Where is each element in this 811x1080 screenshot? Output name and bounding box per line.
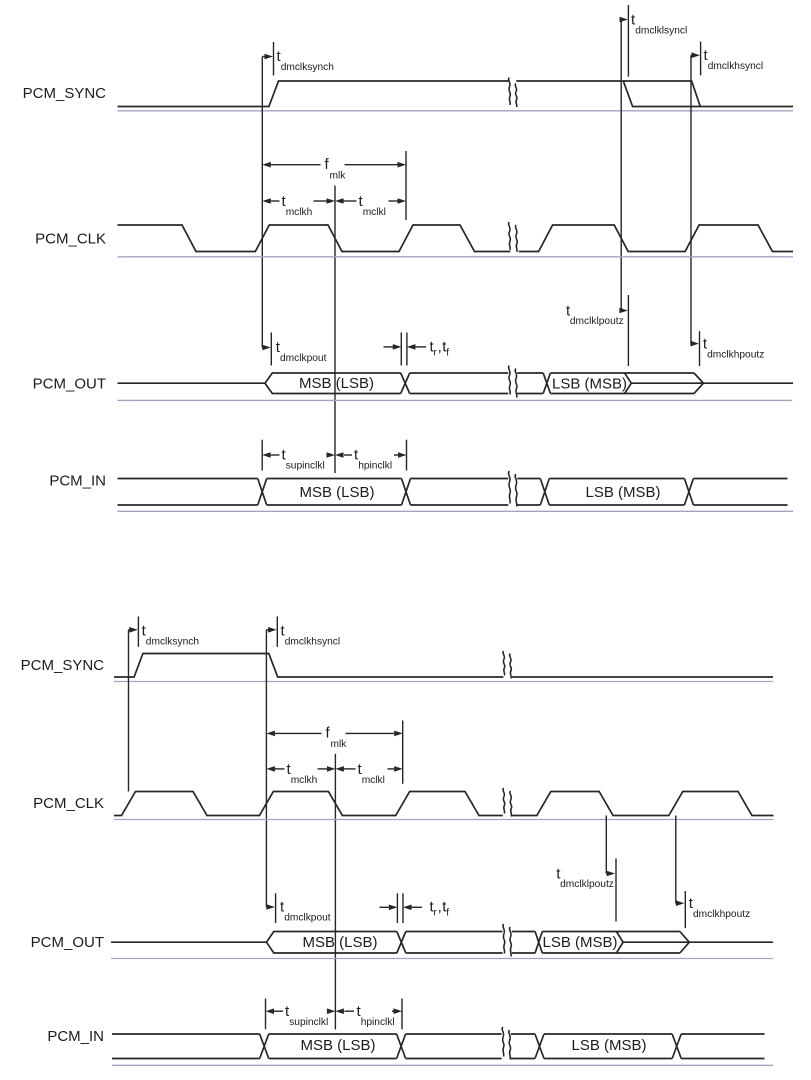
svg-text:LSB (MSB): LSB (MSB) bbox=[585, 484, 660, 501]
svg-text:PCM_CLK: PCM_CLK bbox=[35, 231, 106, 248]
svg-text:LSB (MSB): LSB (MSB) bbox=[552, 376, 627, 393]
svg-text:dmclklpoutz: dmclklpoutz bbox=[570, 316, 624, 327]
svg-text:dmclkpout: dmclkpout bbox=[280, 353, 327, 364]
svg-text:dmclklpoutz: dmclklpoutz bbox=[560, 879, 614, 890]
svg-text:mclkh: mclkh bbox=[291, 775, 318, 786]
svg-text:dmclksynch: dmclksynch bbox=[146, 637, 199, 648]
svg-text:MSB (LSB): MSB (LSB) bbox=[299, 484, 374, 501]
svg-text:mclkl: mclkl bbox=[363, 207, 386, 218]
svg-text:hpinclkl: hpinclkl bbox=[358, 461, 392, 472]
svg-text:PCM_OUT: PCM_OUT bbox=[33, 376, 106, 393]
svg-text:MSB (LSB): MSB (LSB) bbox=[302, 934, 377, 951]
svg-text:MSB (LSB): MSB (LSB) bbox=[300, 1037, 375, 1054]
svg-text:LSB (MSB): LSB (MSB) bbox=[542, 934, 617, 951]
svg-text:supinclkl: supinclkl bbox=[286, 461, 325, 472]
svg-text:mlk: mlk bbox=[330, 171, 347, 182]
svg-text:dmclklsyncl: dmclklsyncl bbox=[635, 26, 687, 37]
svg-text:dmclkhsyncl: dmclkhsyncl bbox=[285, 637, 340, 648]
svg-text:PCM_IN: PCM_IN bbox=[49, 473, 106, 490]
svg-text:mclkl: mclkl bbox=[362, 775, 385, 786]
svg-text:,: , bbox=[438, 339, 442, 356]
svg-text:dmclkpout: dmclkpout bbox=[284, 913, 331, 924]
svg-text:LSB (MSB): LSB (MSB) bbox=[571, 1037, 646, 1054]
svg-text:mclkh: mclkh bbox=[286, 207, 313, 218]
svg-text:dmclkhpoutz: dmclkhpoutz bbox=[693, 909, 750, 920]
svg-text:PCM_IN: PCM_IN bbox=[47, 1028, 104, 1045]
svg-text:dmclkhsyncl: dmclkhsyncl bbox=[708, 61, 763, 72]
svg-text:PCM_CLK: PCM_CLK bbox=[33, 795, 104, 812]
svg-text:PCM_OUT: PCM_OUT bbox=[31, 934, 104, 951]
svg-text:dmclksynch: dmclksynch bbox=[281, 62, 334, 73]
svg-text:f: f bbox=[446, 907, 449, 918]
svg-text:hpinclkl: hpinclkl bbox=[361, 1017, 395, 1028]
svg-text:supinclkl: supinclkl bbox=[289, 1017, 328, 1028]
svg-text:PCM_SYNC: PCM_SYNC bbox=[21, 657, 105, 674]
svg-text:PCM_SYNC: PCM_SYNC bbox=[23, 85, 107, 102]
svg-text:f: f bbox=[446, 347, 449, 358]
svg-text:mlk: mlk bbox=[331, 739, 348, 750]
svg-text:,: , bbox=[438, 899, 442, 916]
svg-text:MSB (LSB): MSB (LSB) bbox=[299, 375, 374, 392]
svg-text:dmclkhpoutz: dmclkhpoutz bbox=[707, 350, 764, 361]
